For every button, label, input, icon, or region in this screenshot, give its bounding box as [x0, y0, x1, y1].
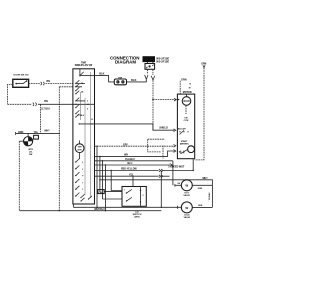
timer label [75, 62, 93, 67]
model number text [156, 56, 169, 63]
wire BLK fuse to timer [95, 72, 115, 82]
svg-text:SW: SW [29, 154, 32, 156]
svg-text:1 SPEED MOT: 1 SPEED MOT [168, 165, 185, 168]
bundle wire GRY (cap) [95, 144, 176, 147]
wire BLK plug to fuse [127, 78, 147, 82]
svg-text:2: 2 [143, 195, 144, 197]
thermal fuse TBF [114, 77, 126, 84]
svg-text:MTR: MTR [78, 150, 83, 152]
svg-text:GRN: GRN [198, 205, 203, 207]
lid switch box [122, 187, 146, 219]
wire neutral to motor run [153, 98, 177, 101]
motor mid labels [184, 106, 189, 123]
svg-text:W: W [185, 206, 188, 210]
indicator top wire BRN YEL WHT [16, 130, 60, 136]
shield wire from timer [79, 123, 176, 131]
indicator lamp riser left [18, 141, 20, 211]
timer motor [75, 141, 84, 160]
svg-text:(LT BLU: (LT BLU [41, 109, 50, 111]
svg-text:BLK-WH: BLK-WH [178, 128, 186, 130]
svg-text:GRN: GRN [181, 78, 187, 81]
svg-text:VALVE: VALVE [184, 216, 191, 219]
svg-text:GRN: GRN [198, 188, 203, 190]
bundle wire YEL [95, 175, 170, 178]
svg-text:CCW: CCW [184, 120, 189, 122]
GRN motor ground [180, 78, 191, 94]
riser to valve1 [172, 161, 174, 186]
svg-text:(BRN/WH): (BRN/WH) [180, 143, 189, 145]
svg-text:GRY: GRY [123, 144, 128, 146]
svg-text:GRN: GRN [201, 64, 206, 66]
svg-text:TMR: TMR [78, 147, 83, 149]
svg-text:WH: WH [124, 154, 128, 156]
ground GRN label right [201, 64, 206, 68]
riser to valve2 [160, 171, 162, 208]
ground wire right side [195, 68, 204, 160]
timer top contact [79, 69, 94, 76]
riser to indicator (dashed) [39, 104, 41, 133]
timer interior stubs [75, 84, 93, 122]
svg-text:BLK: BLK [99, 72, 104, 76]
cord leads with arrow connectors [145, 69, 155, 80]
svg-text:DOOR SW. NO: DOOR SW. NO [14, 75, 29, 77]
svg-text:MOTOR: MOTOR [183, 91, 192, 94]
timer contacts lower column [75, 159, 84, 197]
svg-text:BN: BN [44, 100, 48, 103]
svg-text:(WH): (WH) [134, 216, 139, 218]
wire door parallel lower entering timer [59, 86, 73, 88]
bottom wire 2 [19, 210, 161, 211]
bundle wire BLU [95, 163, 173, 166]
svg-text:GRN/YEL: GRN/YEL [207, 193, 209, 202]
wire door COM loop left [8, 84, 13, 104]
riser lid box top [132, 176, 134, 187]
motor internal switch [178, 128, 189, 134]
svg-text:DIAGRAM: DIAGRAM [115, 60, 136, 65]
bundle wire RED-YELLOW [95, 159, 194, 172]
svg-text:3: 3 [87, 101, 88, 103]
wire 2 (BN / LT BLU) [8, 100, 95, 110]
svg-text:YEL: YEL [34, 132, 39, 134]
svg-text:BRN: BRN [18, 132, 23, 134]
svg-text:9: 9 [82, 162, 83, 164]
dashed routing loop [148, 139, 165, 152]
svg-text:BLK: BLK [131, 78, 136, 82]
door switch DOOR SW. NO [13, 75, 29, 88]
cold valve [181, 202, 212, 219]
hot valve [175, 180, 213, 197]
svg-text:YEL/BLU: YEL/BLU [125, 159, 135, 161]
timer contacts mid left [75, 98, 85, 118]
svg-text:BN: BN [46, 80, 50, 83]
svg-text:VALVE: VALVE [183, 194, 190, 197]
svg-text:LT BLU: LT BLU [78, 115, 85, 117]
bundle wire WH [95, 150, 176, 157]
svg-text:3: 3 [82, 189, 83, 191]
title CONNECTION DIAGRAM [110, 56, 140, 65]
mid risers [96, 146, 98, 207]
svg-text:1: 1 [124, 190, 125, 192]
svg-text:5: 5 [87, 109, 88, 111]
svg-text:WIRE/PLAN VW: WIRE/PLAN VW [75, 64, 93, 67]
cord strain relief box [145, 62, 155, 69]
motor box [177, 94, 194, 159]
timer interior buses [90, 72, 92, 198]
neutral lead WHT down [152, 80, 153, 130]
bottom wire 1 [73, 204, 181, 209]
svg-text:W: W [185, 184, 188, 188]
connector block CBL [98, 190, 122, 199]
svg-text:5: 5 [82, 169, 83, 171]
svg-text:WHT: WHT [202, 178, 208, 180]
motor run winding [178, 94, 191, 105]
svg-text:BLU: BLU [128, 163, 133, 165]
timer box [73, 69, 95, 204]
timer contacts upper left [75, 80, 84, 94]
power cord plug (black block) [143, 56, 156, 62]
indicator lamp [24, 137, 34, 156]
timer bottom contacts [80, 194, 92, 201]
svg-text:RED-YELLOW: RED-YELLOW [121, 169, 137, 171]
svg-text:SHIELD: SHIELD [159, 128, 168, 130]
riser bus left of timer [59, 87, 60, 212]
WHT wire to valves [99, 178, 212, 207]
svg-text:WHT: WHT [44, 130, 50, 132]
svg-text:W5-2F15E: W5-2F15E [156, 59, 169, 63]
wire door NO to timer (BN) [29, 80, 73, 85]
motor start winding [179, 140, 195, 154]
small connector rect [34, 135, 39, 139]
bundle wire YEL/BLU [95, 159, 173, 162]
